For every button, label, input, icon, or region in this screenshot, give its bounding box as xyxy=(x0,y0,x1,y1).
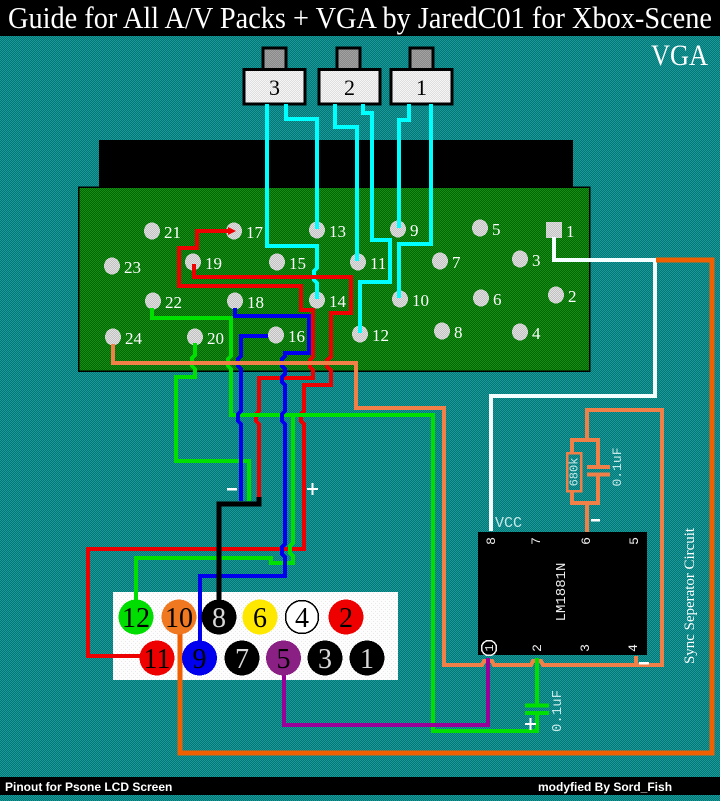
pad 13 xyxy=(309,222,346,242)
wire red pad19 to AV pin 11 xyxy=(88,264,351,656)
wire salmon pad24 to IC pin4 loop xyxy=(113,344,662,665)
pad 15 xyxy=(269,254,306,274)
RC parallel bottom rail xyxy=(572,501,599,505)
svg-text:20: 20 xyxy=(207,329,224,348)
svg-text:14: 14 xyxy=(329,292,347,311)
pad 17 xyxy=(226,223,264,243)
svg-text:9: 9 xyxy=(193,644,207,675)
wire white pad1 to IC pin8 (VCC) xyxy=(491,237,655,531)
svg-text:5: 5 xyxy=(277,644,291,675)
svg-text:8: 8 xyxy=(454,323,463,342)
resistor R1 branch wires xyxy=(570,438,574,454)
plug 1 xyxy=(391,48,452,104)
pad 3 xyxy=(512,251,541,271)
svg-text:5: 5 xyxy=(627,537,642,545)
AV pin 5 xyxy=(266,641,301,676)
plug 2 xyxy=(319,48,380,104)
svg-text:2: 2 xyxy=(344,75,355,100)
resistor R1 680k body xyxy=(567,453,581,491)
wire green branch to AV pin 12 xyxy=(136,415,293,601)
AV pin 4 xyxy=(286,601,319,635)
RC parallel top rail xyxy=(572,438,599,442)
svg-text:6: 6 xyxy=(579,537,594,545)
svg-text:12: 12 xyxy=(372,326,389,345)
pad 11 xyxy=(350,254,386,274)
pad 12 xyxy=(352,326,389,346)
svg-text:1: 1 xyxy=(566,222,575,241)
svg-text:4: 4 xyxy=(295,603,309,634)
plug 3 xyxy=(244,48,305,104)
svg-text:8: 8 xyxy=(484,537,499,545)
svg-text:7: 7 xyxy=(529,537,544,545)
wire green pad22 trunk to bottom capacitor xyxy=(152,308,537,731)
svg-text:0.1uF: 0.1uF xyxy=(610,447,625,486)
pad 8 xyxy=(434,323,463,343)
svg-text:12: 12 xyxy=(122,603,150,634)
wire blue pad18 to AV pin 9 xyxy=(200,308,309,642)
svg-text:modyfied By Sord_Fish: modyfied By Sord_Fish xyxy=(538,780,672,794)
svg-text:680k: 680k xyxy=(568,458,582,487)
svg-text:19: 19 xyxy=(205,254,222,273)
svg-text:5: 5 xyxy=(492,220,501,239)
wire green IC pin2 to capacitor C2 xyxy=(535,658,539,704)
pad 16 xyxy=(268,327,305,347)
svg-text:Sync Seperator Circuit: Sync Seperator Circuit xyxy=(682,527,698,664)
svg-text:2: 2 xyxy=(530,644,545,652)
svg-text:3: 3 xyxy=(532,251,541,270)
pad 21 xyxy=(144,223,181,243)
connector shroud (black strip) xyxy=(99,140,573,187)
svg-text:7: 7 xyxy=(235,644,249,675)
svg-text:6: 6 xyxy=(493,290,502,309)
AV pin 1 xyxy=(350,641,385,676)
wire red pad17 to ground bus xyxy=(179,231,313,501)
svg-text:Pinout for Psone LCD Screen: Pinout for Psone LCD Screen xyxy=(5,780,172,794)
IC U1 LM1881N body xyxy=(478,532,647,655)
svg-text:15: 15 xyxy=(289,254,306,273)
plus label near red wire xyxy=(307,483,318,495)
pad 19 xyxy=(185,254,222,274)
svg-text:VGA: VGA xyxy=(651,39,708,72)
minus label near pin 6 xyxy=(591,519,600,522)
svg-text:2: 2 xyxy=(568,287,577,306)
AV pin 12 xyxy=(119,600,154,635)
svg-text:7: 7 xyxy=(452,253,461,272)
capacitor C1 plates xyxy=(587,465,610,469)
bottom bar xyxy=(0,777,720,795)
svg-text:VCC: VCC xyxy=(495,515,522,532)
svg-text:18: 18 xyxy=(247,293,264,312)
AV pin 7 xyxy=(225,641,260,676)
svg-text:13: 13 xyxy=(329,222,346,241)
AV connector body (white) xyxy=(113,592,398,680)
wire purple AV pin5 to IC pin1 xyxy=(284,658,488,725)
capacitor C1 branch wires xyxy=(596,438,600,466)
svg-text:3: 3 xyxy=(269,75,280,100)
wire salmon RC to IC pin 6 xyxy=(585,503,589,532)
AV pin 6 xyxy=(243,600,278,635)
svg-text:6: 6 xyxy=(253,603,267,634)
AV pin 11 xyxy=(140,641,175,676)
minus label near ground bus xyxy=(227,488,237,491)
pad 5 xyxy=(472,220,501,240)
svg-text:10: 10 xyxy=(165,603,193,634)
svg-text:24: 24 xyxy=(125,329,143,348)
AV pin 2 xyxy=(329,600,364,635)
pad 4 xyxy=(512,324,541,344)
pad 9 xyxy=(390,221,419,241)
svg-text:LM1881N: LM1881N xyxy=(554,563,570,622)
PCB board xyxy=(79,187,590,371)
pad 2 xyxy=(548,287,577,307)
wire plug1-right to pad 10 (cyan) xyxy=(399,104,431,298)
wire green pad20 to ground bus xyxy=(176,343,249,501)
svg-text:17: 17 xyxy=(246,223,264,242)
wire plug1-left to pad 9 (cyan) xyxy=(399,104,409,228)
svg-text:4: 4 xyxy=(626,644,641,652)
wire plug3-right to pad 13 (cyan) xyxy=(286,104,317,229)
svg-text:3: 3 xyxy=(318,644,332,675)
salmon stub IC pin4 to bottom rail xyxy=(634,656,638,665)
wire plug2-right to pad 12 (cyan) xyxy=(360,104,390,333)
capacitor C2 plates xyxy=(525,704,549,708)
svg-text:11: 11 xyxy=(144,644,171,675)
wire orange (vivid) AV pin10 to top-right corner xyxy=(180,260,712,753)
ground bus (black wire) to AV pin 8 xyxy=(219,497,259,601)
svg-text:3: 3 xyxy=(578,644,593,652)
svg-text:22: 22 xyxy=(165,293,182,312)
wire blue pad16 to ground bus xyxy=(238,336,268,501)
pad 10 xyxy=(392,291,429,311)
title bar xyxy=(0,0,720,36)
svg-text:9: 9 xyxy=(410,221,419,240)
svg-text:0.1uF: 0.1uF xyxy=(550,690,566,732)
svg-text:16: 16 xyxy=(288,327,305,346)
pad 1 (square) xyxy=(546,222,575,241)
svg-text:10: 10 xyxy=(412,291,429,310)
AV pin 3 xyxy=(308,641,343,676)
svg-text:1: 1 xyxy=(360,644,374,675)
wire plug3-left to pad 14 (cyan) xyxy=(267,104,317,299)
IC pin 1 label (circled) xyxy=(482,641,498,656)
svg-text:Guide for All A/V Packs + VGA: Guide for All A/V Packs + VGA by JaredC0… xyxy=(8,0,712,35)
svg-text:1: 1 xyxy=(483,644,497,651)
pad 7 xyxy=(432,253,461,273)
svg-text:8: 8 xyxy=(212,603,226,634)
arrowhead at pad 17 xyxy=(228,227,236,235)
svg-text:4: 4 xyxy=(532,324,541,343)
AV pin 9 xyxy=(182,641,217,676)
svg-text:1: 1 xyxy=(416,75,427,100)
svg-text:23: 23 xyxy=(124,258,141,277)
pad 14 xyxy=(309,292,347,312)
svg-text:2: 2 xyxy=(339,603,353,634)
pad 22 xyxy=(145,293,182,313)
pad 23 xyxy=(104,258,141,278)
AV pin 8 xyxy=(202,600,237,635)
svg-text:21: 21 xyxy=(164,223,181,242)
pad 20 xyxy=(187,329,224,349)
plus label near capacitor C2 xyxy=(525,718,536,730)
pad 6 xyxy=(473,290,502,310)
svg-text:11: 11 xyxy=(370,254,386,273)
pad 18 xyxy=(227,293,264,313)
pad 24 xyxy=(105,329,143,349)
AV pin 10 xyxy=(162,600,197,635)
minus label near pin 4 xyxy=(639,662,649,665)
wire plug2-left to pad 11 (cyan) xyxy=(335,104,357,261)
